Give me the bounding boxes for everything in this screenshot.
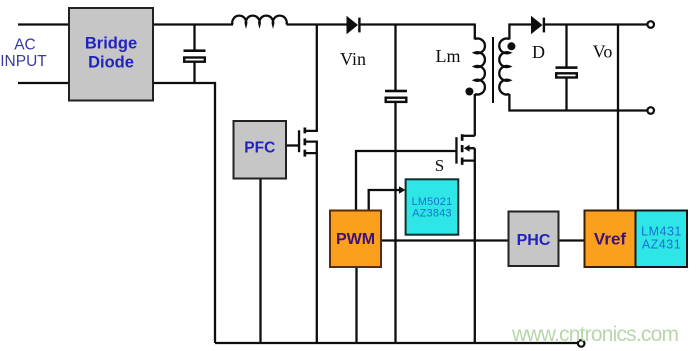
block PWM	[330, 211, 381, 268]
transistor Q2 MOSFET S	[455, 134, 469, 165]
transformer T1 primary top lead	[474, 25, 476, 40]
terminal ground rail end	[578, 340, 585, 347]
wire Q2 drain connection	[463, 135, 475, 137]
wire Vin capacitor branch	[394, 25, 396, 91]
block Vref	[585, 211, 636, 268]
svg-text:AC: AC	[14, 37, 36, 54]
wire PWM to PHC	[381, 239, 509, 241]
wire Q2 middle connection	[468, 147, 475, 149]
wire inductor to diode D1	[287, 23, 348, 25]
svg-text:PWM: PWM	[336, 231, 375, 248]
wire Q2 source to ground rail	[463, 161, 475, 343]
svg-text:INPUT: INPUT	[0, 53, 47, 70]
wire PFC gate lead	[286, 144, 299, 146]
wire bridge bottom output	[152, 83, 215, 343]
svg-text:Vref: Vref	[594, 230, 626, 249]
wire AC input top	[18, 23, 70, 25]
wire Q1 drain riser	[305, 25, 317, 131]
terminal output minus	[647, 107, 654, 114]
polarity dot secondary	[507, 42, 515, 50]
svg-text:PHC: PHC	[517, 232, 551, 249]
svg-text:Diode: Diode	[88, 54, 134, 72]
wire Q1 source to ground rail	[305, 153, 317, 343]
capacitor C1 top lead	[193, 25, 195, 51]
block LM5021 AZ3843	[406, 179, 459, 234]
transformer core	[492, 37, 494, 103]
transformer T1 primary winding	[475, 38, 485, 94]
transformer T1 secondary top lead	[509, 25, 531, 40]
capacitor C1 plates	[184, 49, 206, 61]
wire PWM gate drive to Q2	[356, 151, 456, 211]
diode D output	[531, 16, 545, 34]
transistor Q1 PFC MOSFET	[298, 128, 306, 157]
svg-text:Vin: Vin	[340, 49, 366, 69]
wire Q2 body vertical	[474, 148, 476, 160]
svg-text:PFC: PFC	[244, 140, 275, 157]
diode D1	[347, 16, 361, 34]
svg-text:D: D	[532, 42, 545, 62]
polarity dot primary	[465, 88, 473, 96]
wire Vo sense riser to Vref	[617, 25, 619, 212]
capacitor C2 plates	[385, 90, 407, 102]
wire diode D1 to transformer	[360, 23, 476, 25]
wire PWM sync line	[369, 190, 401, 211]
arrowhead PWM sync	[399, 186, 405, 194]
svg-text:LM5021: LM5021	[412, 196, 453, 208]
block PHC	[509, 212, 559, 267]
wire PFC bottom to ground rail	[259, 178, 261, 343]
transformer T1 secondary bottom lead	[509, 94, 646, 111]
wire PHC to Vref	[558, 239, 585, 241]
capacitor C1 bottom lead	[193, 63, 195, 84]
capacitor C3 plates	[556, 66, 578, 77]
capacitor C3 top lead	[565, 25, 567, 68]
block LM431 AZ431	[636, 211, 688, 268]
svg-text:S: S	[435, 156, 444, 175]
wire Q1 middle connection	[305, 142, 317, 154]
capacitor C2 bottom lead to ground rail	[394, 103, 396, 344]
svg-text:www.cntronics.com: www.cntronics.com	[511, 323, 679, 346]
wire PWM bottom to ground rail	[355, 267, 357, 343]
inductor L1	[232, 16, 286, 25]
svg-text:Lm: Lm	[436, 46, 461, 66]
capacitor C3 bottom lead	[565, 79, 567, 111]
transformer T1 primary bottom lead	[474, 94, 476, 136]
block bridge rectifier	[69, 8, 153, 101]
wire top rail bridge to inductor	[152, 23, 233, 25]
ground rail	[215, 342, 578, 344]
wire output diode to terminal	[545, 23, 647, 25]
svg-text:AZ431: AZ431	[642, 238, 681, 252]
block PFC	[234, 121, 287, 179]
svg-text:Vo: Vo	[593, 42, 613, 62]
transformer T1 secondary winding	[499, 38, 509, 94]
svg-text:AZ3843: AZ3843	[412, 208, 452, 220]
terminal output plus	[647, 21, 654, 28]
svg-text:Bridge: Bridge	[85, 35, 137, 53]
svg-text:LM431: LM431	[641, 225, 682, 239]
wire AC input bottom	[18, 82, 70, 84]
